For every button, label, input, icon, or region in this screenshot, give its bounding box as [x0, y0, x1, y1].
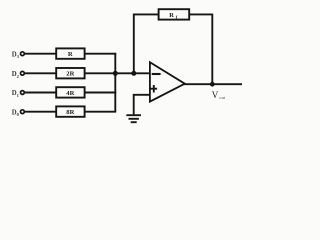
wire 2R to op-amp inverting input — [85, 72, 150, 74]
svg-text:out: out — [219, 95, 226, 100]
junction bus / inverting-input wire — [113, 71, 118, 76]
ground — [126, 115, 141, 122]
resistor 8R — [56, 106, 84, 116]
input terminal D1 — [21, 91, 25, 95]
input terminal D2 — [21, 71, 25, 75]
wire Rf to output riser — [189, 13, 213, 15]
svg-text:R: R — [169, 12, 174, 19]
wire D3 terminal to R — [25, 53, 56, 55]
op-amp minus sign — [152, 73, 161, 75]
input terminal D0 — [21, 110, 25, 114]
svg-text:R: R — [68, 51, 73, 58]
resistor 2R — [56, 68, 84, 78]
op-amp U1 — [150, 62, 185, 101]
label D2 — [12, 71, 20, 79]
wire output riser — [211, 14, 213, 84]
junction feedback tap — [131, 71, 136, 76]
resistor R — [56, 48, 84, 58]
svg-text:8R: 8R — [66, 109, 74, 116]
wire 8R to bus — [85, 111, 117, 113]
input terminal D3 — [21, 52, 25, 56]
wire D1 terminal to 4R — [25, 92, 56, 94]
wire D0 terminal to 8R — [25, 111, 56, 113]
label D1 — [12, 90, 20, 98]
svg-text:4R: 4R — [66, 90, 74, 97]
svg-text:V: V — [212, 90, 219, 100]
wire D2 terminal to 2R — [25, 72, 56, 74]
wire op-amp output — [184, 83, 242, 85]
op-amp plus sign — [151, 85, 158, 93]
wire non-inverting input — [134, 95, 150, 115]
svg-text:2R: 2R — [66, 71, 74, 78]
label D3 — [12, 51, 20, 59]
junction output node — [210, 82, 215, 87]
wire feedback riser — [133, 14, 135, 74]
wire riser to Rf — [133, 13, 159, 15]
wire R to bus — [85, 53, 117, 55]
resistor Rf — [159, 9, 190, 19]
label D0 — [12, 109, 20, 117]
wire 4R to bus — [85, 92, 117, 94]
resistor 4R — [56, 87, 84, 97]
summing bus wire — [114, 53, 116, 112]
label Vout — [212, 90, 226, 100]
